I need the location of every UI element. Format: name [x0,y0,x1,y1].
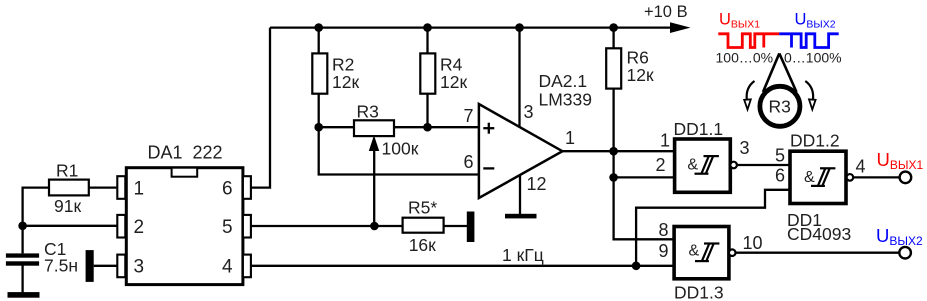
svg-text:10: 10 [743,233,763,253]
resistor R5* [403,218,444,233]
wire R3 wiper down [373,150,375,226]
junction comparator out/DD1.1 pin1 [609,147,618,156]
junction R2/R3 [314,123,323,132]
svg-text:R3: R3 [357,102,379,122]
DA1 pin box 6 [243,176,251,199]
svg-text:3: 3 [134,257,145,278]
gate DD1.1 box [675,139,731,192]
svg-text:7.5н: 7.5н [44,256,78,276]
svg-text:UВЫХ1: UВЫХ1 [719,11,760,31]
capacitor C1 [6,253,39,265]
svg-text:3: 3 [740,138,750,158]
svg-text:6: 6 [775,166,785,186]
svg-text:6: 6 [222,179,233,200]
op-amp comparator DA2.1 [479,104,563,198]
svg-text:&: & [687,157,698,174]
junction wiper/R5 [370,222,379,231]
svg-text:12к: 12к [440,72,467,92]
wire -input branch [319,127,479,174]
svg-text:DD1.3: DD1.3 [674,283,724,301]
wire R5 right to common bar [444,225,467,227]
svg-text:5: 5 [222,217,233,238]
gate DD1.2 box [790,151,846,203]
junction rail/R6 [609,23,618,32]
svg-text:&: & [689,243,700,260]
DA1 pin box 5 [243,215,251,238]
wire pin5 to R5 node [251,225,403,227]
waveform U_VYH1 red [718,34,779,48]
wire R4 to +input node [426,92,428,127]
wire DD1.2 out to terminal U_VYH1 [853,176,899,178]
potentiometer R3 [354,120,394,136]
resistor R4 [420,53,435,93]
wire pin3 to common bar [94,265,117,267]
gate DD1.3 output bubble [729,249,736,256]
wire R3 right to node [394,126,428,128]
svg-text:UВЫХ1: UВЫХ1 [877,149,924,172]
wire comparator pin12 to ground [519,174,521,215]
svg-text:R3: R3 [769,97,791,117]
chip DA1 notch [172,168,198,177]
wire R1 left to C1 node [23,188,48,254]
gate DD1.3 box [674,227,729,279]
svg-text:&: & [804,169,815,186]
knob left rotation arrow [747,81,755,100]
svg-text:DA2.1: DA2.1 [539,71,588,91]
wire DA1 pin6 up to rail [251,28,270,188]
wire node to R3 left [319,126,354,128]
svg-text:UВЫХ2: UВЫХ2 [795,11,836,31]
svg-text:DD1.1: DD1.1 [674,119,724,139]
junction R4/+input [423,123,432,132]
output terminal U_VYH2 [899,247,911,259]
svg-text:2: 2 [656,155,666,175]
wire node to DD1.1 pin2 [614,176,675,178]
wire +input [428,126,479,128]
wire DD1.3 out to terminal U_VYH2 [735,252,899,254]
junction rail/pin3 [515,23,524,32]
resistor R2 [312,53,327,93]
junction R1/C1/pin2 [18,222,27,231]
svg-text:2: 2 [134,217,145,238]
svg-text:4: 4 [856,157,866,177]
wire pin4 1kHz bottom [251,265,674,267]
R3 wiper arrowhead [369,135,379,151]
junction DD1.1 pin2 [609,173,618,182]
waveform U_VYH2 blue [779,34,839,48]
svg-text:+10 В: +10 В [644,3,688,21]
ground comparator pin12 [505,214,537,219]
svg-text:100…0%: 100…0% [716,50,774,66]
junction 1kHz/DD1.3 pin9 [632,262,641,271]
wire rail to R6 [612,28,614,49]
ground C1 [8,292,40,298]
svg-text:1: 1 [134,179,145,200]
svg-text:12: 12 [527,174,547,194]
svg-text:7: 7 [464,106,474,126]
svg-text:3: 3 [524,102,534,122]
resistor R1 [49,180,89,196]
wire rail to R2 [318,28,320,54]
svg-text:5: 5 [775,146,785,166]
wire R6 down to pin8 corner [614,88,675,239]
gate DD1.1 output bubble [730,162,737,169]
svg-text:CD4093: CD4093 [787,224,851,244]
DA1 pin box 2 [117,215,125,238]
svg-text:16к: 16к [409,235,436,255]
wire R2 to R3 node [318,92,320,127]
wire C1 to ground [21,265,23,293]
svg-text:1: 1 [660,131,670,151]
wire comparator output to DD1.1 pin1 [562,150,674,152]
gate DD1.1 hysteresis [695,156,719,174]
wire +10V top rail [270,26,672,28]
svg-text:12к: 12к [627,65,654,85]
svg-text:UВЫХ2: UВЫХ2 [876,225,923,248]
svg-text:DD1.2: DD1.2 [790,131,840,151]
resistor R6 [606,48,621,88]
comparator + sign [483,123,494,134]
svg-text:100к: 100к [382,139,419,159]
svg-text:9: 9 [659,241,669,261]
knob right rotation arrow [805,81,813,100]
gate DD1.2 output bubble [847,174,854,181]
DA1 pin box 4 [243,255,251,278]
wire node to pin2 [23,225,117,227]
svg-text:R5*: R5* [408,198,437,218]
wire DD1.1 out to DD1.2 pin5 [737,164,790,166]
svg-text:LM339: LM339 [539,90,593,110]
svg-text:91к: 91к [54,196,81,216]
svg-text:R1: R1 [56,161,78,181]
svg-text:1 кГц: 1 кГц [502,245,544,265]
wire bottom node up and over to DD1.2 pin6 [636,190,790,266]
wire rail to R4 [426,28,428,54]
comparator - sign [483,167,494,169]
common bar DA1 pin3 [86,250,94,282]
junction rail/R2 [314,23,323,32]
svg-text:1: 1 [565,128,575,148]
knob R3 ring [760,86,800,126]
svg-text:6: 6 [464,152,474,172]
junction rail/R4 [423,23,432,32]
DA1 pin box 1 [117,176,125,199]
wire rail to comparator pin3 [518,28,520,128]
DA1 pin box 3 [117,255,125,278]
gate DD1.2 hysteresis [811,168,835,186]
knob pointer [763,53,797,92]
svg-text:4: 4 [222,257,233,278]
wire R1 right to pin1 [89,186,117,188]
output terminal U_VYH1 [900,172,912,184]
gate DD1.3 hysteresis [695,244,719,262]
svg-text:8: 8 [659,220,669,240]
chip DA1 body [126,168,243,285]
common bar after R5 [467,212,475,243]
+10V supply arrowhead [670,22,691,33]
svg-text:12к: 12к [332,72,359,92]
svg-text:0…100%: 0…100% [784,50,842,66]
svg-text:DA1 222: DA1 222 [148,143,223,163]
